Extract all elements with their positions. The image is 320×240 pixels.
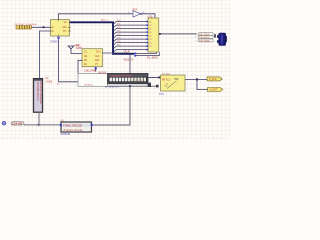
svg-text:PC: PC (63, 30, 67, 33)
svg-text:AD0..7: AD0..7 (101, 18, 108, 21)
svg-text:P06: P06 (117, 41, 120, 43)
svg-text:P02: P02 (117, 27, 120, 29)
svg-text:CON2: CON2 (50, 40, 58, 44)
wire U4 pin2 (78, 60, 83, 73)
junction dot (129, 85, 131, 87)
inverter U2A (128, 8, 145, 17)
flags top right (195, 33, 213, 43)
svg-text:P00: P00 (117, 20, 120, 22)
wire PV to flags (185, 78, 207, 80)
junction on crystal wire (43, 26, 45, 28)
svg-text:D3: D3 (149, 32, 151, 34)
U3 bottom wires to bus end (136, 52, 157, 53)
svg-text:AT_D0 AT_D1: AT_D0 AT_D1 (105, 86, 120, 89)
wire crystal to U1 (31, 26, 50, 28)
svg-text:FB TL2: FB TL2 (162, 78, 170, 81)
wire U3 right to flags (159, 33, 197, 35)
U4 bottom stub (95, 67, 97, 72)
yellow flag 1 (207, 77, 222, 81)
svg-text:S_DAT: S_DAT (210, 89, 218, 92)
bottom wire (24, 124, 61, 126)
svg-text:LA005: LA005 (46, 80, 53, 83)
svg-text:PV1: PV1 (159, 93, 164, 96)
svg-text:CLK: CLK (95, 56, 100, 58)
dark square right (148, 83, 151, 87)
antenna (68, 46, 82, 54)
svg-text:Program Counter: Program Counter (64, 129, 83, 132)
svg-text:DB_RXD0: DB_RXD0 (199, 37, 210, 39)
connector icon top right (214, 33, 227, 46)
svg-text:RS EN D4: RS EN D4 (84, 85, 94, 87)
wire LCD to PV box (148, 77, 161, 79)
wire U4 right to LCD top (103, 53, 131, 74)
wire U1 top to inverter (59, 14, 134, 20)
svg-text:P01: P01 (117, 24, 120, 26)
svg-text:433M: 433M (76, 47, 82, 50)
PV box (159, 73, 185, 96)
wire tall comp bottom to junction (38, 112, 40, 125)
yellow flag 2 (208, 88, 223, 92)
svg-text:CE: CE (84, 56, 88, 58)
svg-text:ANTENNA BAR XL: ANTENNA BAR XL (36, 82, 39, 102)
svg-text:COA-IN5: COA-IN5 (12, 123, 23, 126)
svg-text:D4: D4 (149, 35, 151, 37)
vertical wire x=130 (92, 86, 131, 125)
svg-text:C: C (52, 30, 54, 33)
U3 bus wires (114, 22, 148, 52)
svg-text:D7: D7 (149, 46, 151, 48)
bottom box MCU (60, 119, 93, 136)
svg-text:P05: P05 (117, 38, 120, 40)
svg-text:DB_GND0: DB_GND0 (199, 40, 210, 42)
bus from U1 to U3 (70, 22, 135, 54)
crystal X1 (16, 26, 31, 29)
svg-text:LM016L: LM016L (98, 73, 107, 75)
IC U1 (51, 20, 72, 37)
white box (78, 74, 108, 87)
svg-text:D1: D1 (149, 25, 151, 27)
wire inverter to U3 top (142, 14, 155, 18)
svg-text:D5: D5 (149, 39, 151, 41)
svg-text:DAT: DAT (95, 59, 100, 62)
svg-text:AD[0..7]: AD[0..7] (124, 57, 134, 61)
wire U1 left pin2 to vertical (40, 31, 51, 79)
IC U3 (148, 18, 159, 52)
U1 bottom pin blue square (57, 37, 59, 39)
svg-text:P04: P04 (117, 34, 120, 36)
IC U4 radio (82, 49, 103, 67)
svg-text:LS_D: LS_D (124, 50, 130, 53)
svg-text:P03: P03 (117, 31, 120, 33)
svg-text:GND_PWR: GND_PWR (84, 69, 96, 72)
dark box LCD (108, 73, 149, 83)
svg-text:SENSOR MODULE: SENSOR MODULE (39, 81, 43, 104)
background grid (0, 0, 230, 140)
U3 pin squares and labels (146, 21, 148, 51)
svg-text:VC: VC (64, 21, 68, 24)
svg-text:D0: D0 (149, 21, 151, 23)
svg-text:S_CLK: S_CLK (209, 78, 217, 81)
svg-text:AT89C51: AT89C51 (61, 133, 72, 136)
svg-text:RL_MOD: RL_MOD (147, 55, 158, 59)
svg-text:01234: 01234 (133, 80, 146, 82)
wire under boxes (108, 85, 159, 87)
svg-text:CA1: CA1 (62, 26, 67, 29)
svg-text:P07: P07 (117, 45, 120, 47)
svg-text:GC1: GC1 (96, 52, 101, 54)
oval net label (11, 122, 25, 127)
svg-text:D2: D2 (149, 28, 151, 30)
tall component LDR bar (34, 79, 43, 113)
svg-text:D6: D6 (149, 42, 151, 44)
svg-text:ATMEL 89C51B: ATMEL 89C51B (63, 124, 82, 128)
junction bottom left (38, 124, 40, 126)
terminal circle icon (2, 121, 6, 125)
wire U1 bottom down to white box (59, 39, 79, 82)
